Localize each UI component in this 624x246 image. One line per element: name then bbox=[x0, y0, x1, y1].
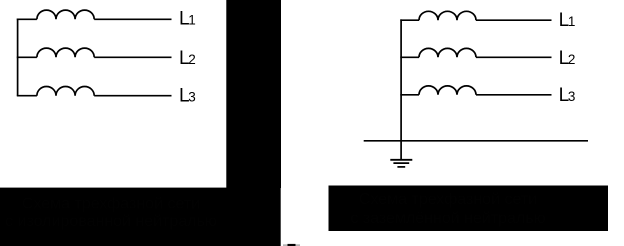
wire: left branch 1 lead-in bbox=[17, 18, 37, 20]
wire: right branch 3 lead-in bbox=[400, 94, 419, 96]
wire: right branch 2 output to L2 bbox=[476, 56, 552, 58]
svg-text:2: 2 bbox=[188, 52, 196, 67]
inductor L2 (right circuit) bbox=[419, 48, 476, 57]
cropped mark at bottom centre bbox=[283, 244, 300, 246]
inductor L3 (right circuit) bbox=[419, 86, 476, 95]
inductor L3 (left circuit) bbox=[37, 87, 94, 96]
svg-text:с заземлённой нейтралью: с заземлённой нейтралью bbox=[350, 210, 545, 227]
label L1 (left) bbox=[179, 9, 196, 30]
ground symbol bbox=[390, 160, 412, 167]
left caption panel bbox=[0, 188, 281, 246]
svg-text:2: 2 bbox=[568, 52, 576, 67]
svg-text:3: 3 bbox=[568, 89, 576, 104]
wire: left branch 3 lead-in bbox=[17, 95, 37, 97]
label L3 (right) bbox=[559, 85, 576, 106]
wire: left branch 3 output to L3 bbox=[94, 95, 171, 97]
inductor L1 (right circuit) bbox=[419, 11, 476, 20]
wire: left branch 1 output to L1 bbox=[94, 18, 171, 20]
wire: right circuit common vertical neutral wire down to ground bbox=[400, 19, 402, 159]
right caption text (dark on black) bbox=[350, 191, 545, 227]
label L3 (left) bbox=[179, 85, 196, 106]
wire: left branch 2 output to L2 bbox=[94, 56, 171, 58]
svg-text:Схема трехфазной сети: Схема трехфазной сети bbox=[22, 196, 200, 213]
wire: right branch 2 lead-in bbox=[400, 56, 419, 58]
svg-text:с изолированной нейтралью: с изолированной нейтралью bbox=[5, 213, 217, 230]
svg-text:1: 1 bbox=[568, 14, 576, 29]
wire: right branch 3 output to L3 bbox=[476, 94, 552, 96]
inductor L2 (left circuit) bbox=[37, 48, 94, 57]
svg-text:Схема трехфазной сети: Схема трехфазной сети bbox=[359, 191, 537, 208]
svg-text:1: 1 bbox=[188, 13, 196, 28]
wire: right branch 1 output to L1 bbox=[476, 19, 552, 21]
right caption panel bbox=[329, 186, 609, 232]
wire: left circuit common vertical neutral wire bbox=[17, 19, 19, 96]
label L1 (right) bbox=[559, 10, 576, 31]
svg-text:3: 3 bbox=[188, 89, 196, 104]
wire: left branch 2 lead-in bbox=[17, 56, 37, 58]
left caption text (dark on black) bbox=[5, 196, 217, 230]
wire: grounded neutral bus bbox=[364, 140, 588, 142]
wire: right branch 1 lead-in bbox=[400, 19, 419, 21]
black divider band between the two schematics bbox=[226, 0, 281, 188]
label L2 (right) bbox=[559, 48, 576, 69]
inductor L1 (left circuit) bbox=[37, 10, 94, 19]
label L2 (left) bbox=[179, 48, 196, 69]
